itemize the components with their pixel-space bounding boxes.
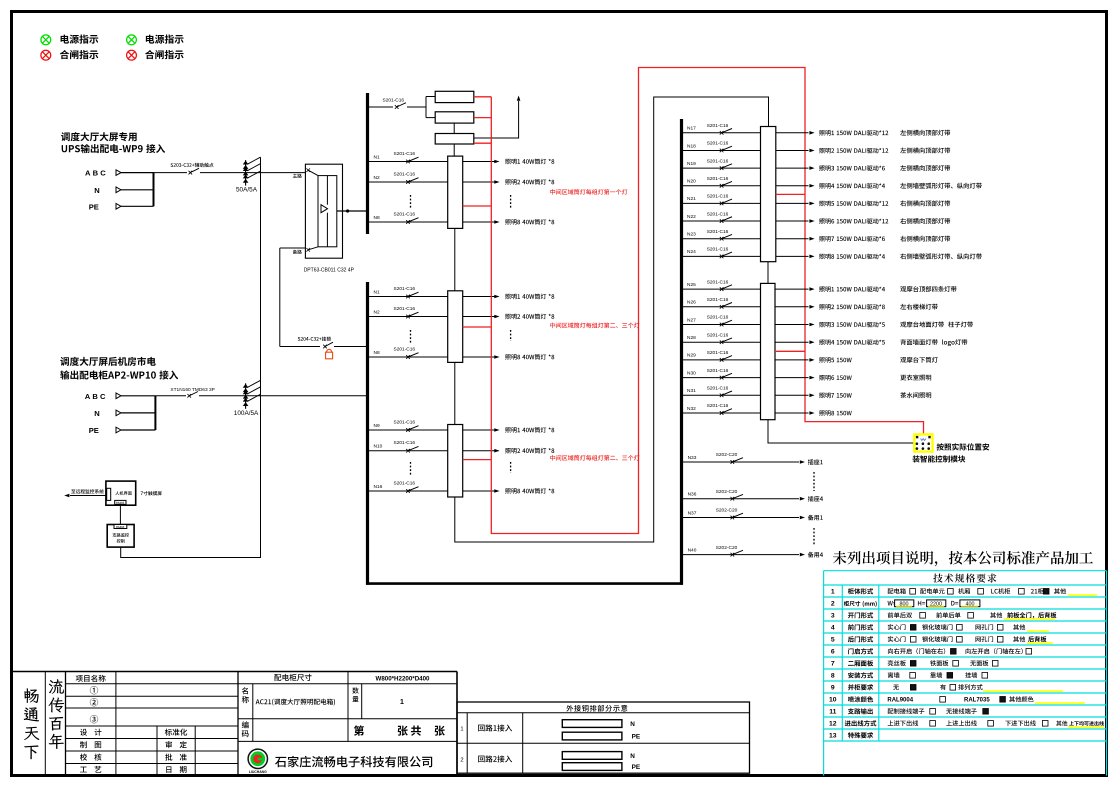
arrow and load label of N23 (809, 237, 814, 241)
arrow and load label of N27 (809, 323, 814, 327)
svg-text:N2: N2 (374, 310, 380, 316)
padlock symbol red (326, 349, 333, 359)
copper bar N row1 (562, 720, 622, 728)
dots group1 right (510, 195, 512, 208)
svg-text:S201-C16: S201-C16 (707, 141, 729, 147)
svg-text:N9: N9 (374, 423, 380, 429)
arrow and load label of N17 (809, 131, 814, 135)
ATS dual power switch DPT63-CB011 outline (305, 164, 342, 258)
wire terminal2 to terminal3 (454, 362, 456, 424)
branch circuit N19 wire (683, 167, 761, 169)
branch circuit N10 wire (369, 450, 463, 452)
branch breaker S201-C16 module feed (369, 106, 393, 108)
svg-text:S201-C16: S201-C16 (707, 368, 729, 374)
branch circuit N16 wire (369, 490, 463, 492)
svg-text:9: 9 (831, 685, 835, 692)
technical spec table title (933, 573, 996, 582)
branch circuit N2 wire (369, 181, 463, 183)
breaker S201-C16 of N28 (720, 340, 724, 344)
copper bar PE row1 (562, 732, 622, 740)
svg-text:S201-C16: S201-C16 (707, 403, 729, 409)
svg-text:N30: N30 (687, 370, 696, 376)
svg-text:100A/5A: 100A/5A (234, 410, 259, 417)
arrow and load label of N29 (809, 358, 814, 362)
arrow and load label of N16 (494, 489, 499, 493)
ATS inner frame (318, 176, 337, 247)
svg-text:S201-C16: S201-C16 (707, 123, 729, 129)
breaker S201-C16 of N17 (720, 131, 724, 135)
company name (275, 756, 432, 767)
breaker S201-C16 of N21 (720, 202, 724, 206)
svg-text:S202-C20: S202-C20 (716, 545, 738, 551)
wire module2 to module3 (453, 123, 455, 133)
legend label closing-indication 1 (60, 50, 98, 59)
svg-text:LIUCHANG: LIUCHANG (249, 770, 267, 774)
branch circuit N28 wire (683, 341, 761, 343)
arrow and load label of N9 (494, 428, 499, 432)
wire module3 to terminal block 1 (453, 144, 455, 156)
breaker S201-C16 of N2 (406, 180, 410, 184)
branch circuit N27 wire (683, 324, 761, 326)
remote monitoring label (71, 489, 103, 493)
svg-text:N19: N19 (687, 161, 696, 167)
svg-text:10: 10 (829, 697, 837, 704)
spec row3 content (888, 612, 912, 618)
svg-text:N1: N1 (374, 155, 380, 161)
svg-text:N23: N23 (687, 232, 696, 238)
arrow and load label of N19 (809, 166, 814, 170)
breaker S201-C16 of N8 (406, 355, 410, 359)
branch circuit N37 wire (683, 517, 799, 519)
svg-text:N29: N29 (687, 353, 696, 359)
ATS backup path label (293, 250, 302, 254)
svg-text:N37: N37 (688, 510, 697, 516)
spec row12 content (888, 720, 919, 726)
arrow and load label of N33 (800, 460, 805, 464)
busbar 1 ATS output (366, 93, 369, 234)
arrow and load label of N2 (494, 180, 499, 184)
wire feed2 PE (121, 429, 155, 431)
red stub right B control (775, 350, 805, 352)
branch circuit N20 wire (683, 185, 761, 187)
svg-text:2: 2 (831, 601, 835, 608)
breaker S201-C16 of N19 (720, 166, 724, 170)
svg-text:A B C: A B C (85, 169, 106, 178)
breaker S201-C16 of N2 (406, 315, 410, 319)
breaker XT1N160 TMD63 3P (187, 394, 191, 398)
svg-text:7: 7 (831, 661, 835, 668)
arrow and load label of N8 (494, 355, 499, 359)
svg-text:11: 11 (829, 709, 836, 716)
svg-text:S201-C16: S201-C16 (394, 420, 416, 426)
current transformer CT2 100A/5A (245, 383, 247, 409)
breaker S201-C16 of N20 (720, 184, 724, 188)
svg-text:XT1N160 TMD63 3P: XT1N160 TMD63 3P (170, 387, 214, 393)
ATS main contact (306, 168, 310, 172)
legend label power-indication 2 (146, 34, 184, 43)
breaker S201-C16 of N31 (720, 394, 724, 398)
svg-text:N31: N31 (687, 388, 696, 394)
svg-text:N2: N2 (374, 175, 380, 181)
arrow and load label of N40 (800, 553, 805, 557)
wire feed2 to breaker XT1N160 (155, 395, 186, 397)
wire breaker S203 to CT1 (200, 172, 306, 174)
HMI box human machine interface (106, 481, 136, 505)
branch circuit N40 wire (683, 554, 799, 556)
branch circuit N2 wire (369, 316, 463, 318)
svg-text:N16: N16 (374, 484, 383, 490)
wire feed1 to breaker S203 (154, 172, 188, 174)
breaker S203-C32 with aux contact (189, 171, 193, 175)
breaker S201-C16 of N9 (406, 428, 410, 432)
breaker S202-C20 of N37 (731, 516, 735, 520)
svg-text:S201-C16: S201-C16 (394, 440, 416, 446)
wire breaker to module connector (407, 106, 426, 108)
current transformer CT1 50A/5A (245, 160, 247, 186)
svg-text:S202-C20: S202-C20 (716, 452, 738, 458)
svg-text:4: 4 (831, 625, 835, 632)
svg-text:PE: PE (89, 202, 99, 211)
title block label project name (76, 675, 106, 682)
arrow and load label of N22 (809, 219, 814, 223)
branch circuit N17 wire (683, 132, 761, 134)
title block sheet number (354, 725, 364, 735)
branch circuit N24 wire (683, 255, 761, 257)
arrow and load label of N31 (809, 394, 814, 398)
svg-text:N20: N20 (687, 179, 696, 185)
branch circuit N30 wire (683, 377, 761, 379)
svg-text:PE: PE (632, 734, 641, 741)
wire HMI to branch monitor (119, 504, 121, 524)
breaker S202-C20 of N36 (731, 497, 735, 501)
HMI note 7 inch touchscreen (141, 491, 162, 495)
svg-text:S201-C16: S201-C16 (394, 172, 416, 178)
svg-text:S201-C16: S201-C16 (394, 306, 416, 312)
svg-text:S201-C16: S201-C16 (394, 347, 416, 353)
note text not-listed-items (833, 551, 1093, 566)
arrow and load label of N2 (494, 315, 499, 319)
svg-text:8: 8 (831, 673, 835, 680)
arrow and load label of N21 (809, 202, 814, 206)
branch circuit N21 wire (683, 202, 761, 204)
branch circuit N8 wire (369, 221, 463, 223)
arrow and load label of N8 (494, 220, 499, 224)
arrow and load label of N37 (800, 516, 805, 520)
svg-text:1: 1 (400, 699, 404, 706)
svg-text:N40: N40 (688, 547, 697, 553)
svg-text:N: N (94, 186, 99, 195)
legend label power-indication 1 (61, 34, 99, 43)
title block circled numbers (90, 686, 98, 694)
legend label closing-indication 2 (145, 50, 183, 59)
svg-text:N28: N28 (687, 335, 696, 341)
external copper bar table (457, 702, 750, 773)
branch circuit N1 wire (369, 296, 463, 298)
smart module annotation line2 (913, 455, 966, 462)
dots sockets group upper (813, 472, 815, 491)
svg-text:S201-C16: S201-C16 (707, 229, 729, 235)
wire module2 red stub (474, 117, 492, 119)
smart module annotation line1 (937, 443, 990, 450)
svg-text:PE: PE (89, 426, 99, 435)
breaker S201-C16 of N1 (406, 160, 410, 164)
indicator lamp legend red closing 1 (41, 50, 51, 60)
copper bar N row2 (562, 752, 622, 760)
branch circuit N18 wire (683, 149, 761, 151)
wire module1 red stub (474, 96, 492, 98)
svg-text:N: N (94, 409, 99, 418)
branch circuit N25 wire (683, 288, 761, 290)
wire branch monitor to UPS feed (121, 158, 261, 558)
svg-text:S201-C16: S201-C16 (707, 247, 729, 253)
red annotation group3 (550, 455, 639, 461)
arrow and load label of N32 (809, 411, 814, 415)
technical specification table cyan grid (824, 570, 1107, 572)
company logo (248, 749, 267, 768)
breaker S201-C16 of N16 (406, 489, 410, 493)
arrow and load label of N26 (809, 305, 814, 309)
svg-text:1: 1 (831, 589, 835, 596)
wire module3 output up arrow (474, 101, 519, 138)
svg-text:S201-C16: S201-C16 (707, 332, 729, 338)
svg-text:S202-C20: S202-C20 (716, 489, 738, 495)
red stub group3 control (463, 459, 492, 461)
title block grid (12, 671, 458, 673)
control chain wire terminal3 to right panel (455, 97, 769, 542)
svg-text:6: 6 (831, 649, 835, 656)
svg-text:N10: N10 (374, 444, 383, 450)
branch circuit N23 wire (683, 238, 761, 240)
svg-text:S201-C16: S201-C16 (707, 158, 729, 164)
arrow and load label of N36 (800, 497, 805, 501)
copper bar table title (566, 705, 627, 712)
red stub group2 control (463, 326, 492, 328)
breaker S202-C20 of N40 (731, 553, 735, 557)
wire to remote monitoring with arrow (70, 495, 107, 497)
wire feed1 collector vertical (153, 173, 155, 207)
svg-text:50A/5A: 50A/5A (236, 187, 258, 194)
power module rectangle 1 (435, 91, 474, 102)
breaker S204-C32 with padlock (323, 345, 327, 349)
wire feed1 PE (121, 205, 154, 207)
arrow and load label of N1 (494, 160, 499, 164)
svg-text:S201-C16: S201-C16 (707, 386, 729, 392)
svg-text:S201-C16: S201-C16 (383, 98, 405, 104)
svg-text:S201-C16: S201-C16 (394, 481, 416, 487)
wire feed2 N (121, 412, 155, 414)
indicator lamp legend green power 2 (127, 35, 137, 45)
breaker S201-C16 of N26 (720, 305, 724, 309)
title block cabinet size header (274, 674, 311, 681)
feed 1 description text UPS (61, 132, 137, 141)
title block name label (242, 687, 248, 694)
dots group1 left (410, 195, 412, 209)
busbar 3 right panel (680, 119, 683, 585)
calligraphy motto right column (49, 679, 64, 694)
dots sockets group lower (813, 528, 815, 545)
svg-text:S201-C16: S201-C16 (707, 176, 729, 182)
svg-text:12: 12 (829, 721, 837, 728)
junction dot ATS output (346, 209, 349, 212)
svg-text:S201-C16: S201-C16 (394, 151, 416, 157)
wire feed1 N (121, 189, 154, 191)
branch circuit N32 wire (683, 412, 761, 414)
calligraphy motto left column (24, 688, 39, 703)
branch circuit N31 wire (683, 394, 761, 396)
breaker S201-C16 of N27 (720, 323, 724, 327)
red annotation group1 (550, 189, 627, 195)
svg-text:2: 2 (460, 758, 463, 764)
branch circuit N29 wire (683, 359, 761, 361)
busbar 2 mains (366, 282, 369, 585)
arrow and load label of N18 (809, 149, 814, 153)
branch circuit N22 wire (683, 220, 761, 222)
arrow and load label of N20 (809, 184, 814, 188)
svg-text:S201-C16: S201-C16 (707, 211, 729, 217)
branch circuit N36 wire (683, 498, 799, 500)
svg-text:N26: N26 (687, 300, 696, 306)
spec row7 content (888, 660, 906, 666)
branch circuit N33 wire (683, 461, 799, 463)
spec row9 content (893, 685, 899, 690)
wire ATS backup from bus2 via S204 horizontal (280, 247, 306, 249)
arrow and load label of N10 (494, 449, 499, 453)
spec row6 content (888, 648, 945, 654)
breaker S201-C16 of N1 (406, 295, 410, 299)
terminal block right A (761, 127, 776, 262)
branch circuit N1 wire (369, 161, 463, 163)
ATS main path label (293, 174, 302, 178)
branch monitor control box (107, 525, 134, 548)
svg-text:N27: N27 (687, 317, 696, 323)
wire breaker to CT2 (199, 395, 367, 397)
breaker S201-C16 of N24 (720, 255, 724, 259)
breaker S201-C16 of N8 (406, 220, 410, 224)
ATS backup contact (306, 248, 310, 252)
wire feed2 collector vertical (154, 396, 156, 430)
svg-text:5: 5 (831, 637, 835, 644)
svg-text:N8: N8 (374, 215, 380, 221)
svg-text:RAL9004: RAL9004 (887, 698, 913, 704)
smart control module yellow highlighted box (914, 434, 932, 451)
wire bus2 to bus3 bottom link (366, 582, 683, 585)
arrow and load label of N30 (809, 376, 814, 380)
svg-text:S202-C20: S202-C20 (716, 508, 738, 514)
svg-text:N24: N24 (687, 249, 696, 255)
branch circuit N9 wire (369, 429, 463, 431)
arrow and load label of N1 (494, 295, 499, 299)
feed 2 description text mains (60, 357, 155, 366)
red annotation group2 (550, 323, 639, 329)
wire terminal A to terminal B (767, 262, 769, 284)
ATS selector triangle (321, 205, 328, 213)
svg-text:1: 1 (460, 727, 463, 733)
copper bar PE row2 (562, 763, 622, 771)
svg-text:N32: N32 (687, 406, 696, 412)
svg-text:A B C: A B C (85, 392, 106, 401)
breaker S201-C16 of N18 (720, 149, 724, 153)
power module rectangle 2 (435, 112, 474, 123)
wire ATS backup vertical (279, 248, 281, 347)
power module rectangle 3 (435, 134, 474, 145)
red stub group1 control (463, 205, 492, 207)
breaker S201-C16 of N30 (720, 376, 724, 380)
indicator lamp legend green power 1 (41, 35, 51, 45)
control chain terminal B to smart module (768, 420, 914, 443)
dots group2 right (510, 330, 512, 341)
svg-text:N8: N8 (374, 350, 380, 356)
indicator lamp legend red closing 2 (127, 50, 137, 60)
title block code label (242, 721, 249, 728)
breaker S201-C16 of N10 (406, 449, 410, 453)
breaker S202-C20 of N33 (731, 460, 735, 464)
title block quantity label (352, 687, 358, 693)
svg-text:N25: N25 (687, 282, 696, 288)
terminal block group 1 (448, 156, 463, 228)
title block designer rows (80, 729, 101, 736)
wire terminal1 to terminal2 (454, 228, 456, 290)
branch circuit N26 wire (683, 306, 761, 308)
svg-text:S201-C16: S201-C16 (707, 194, 729, 200)
svg-text:N21: N21 (687, 196, 696, 202)
svg-text:N: N (630, 721, 635, 728)
breaker S201-C16 of N32 (720, 411, 724, 415)
svg-text:N33: N33 (688, 455, 697, 461)
svg-text:N: N (630, 753, 635, 760)
wire feed1 phase (121, 172, 154, 174)
svg-text:W800*H2200*D400: W800*H2200*D400 (375, 675, 430, 682)
breaker S201-C16 of N25 (720, 287, 724, 291)
dots group2 left (410, 330, 412, 344)
svg-text:S201-C16: S201-C16 (707, 350, 729, 356)
svg-text:S201-C16: S201-C16 (707, 315, 729, 321)
svg-text:13: 13 (829, 733, 837, 740)
spec row4 content (888, 624, 906, 630)
terminal block group 2 (448, 291, 463, 363)
svg-text:N1: N1 (374, 290, 380, 296)
red stub right A control (776, 193, 805, 195)
red control wire main loop (491, 68, 923, 534)
branch circuit N8 wire (369, 356, 463, 358)
svg-text:RAL7035: RAL7035 (964, 698, 990, 704)
wire feed2 phase (121, 395, 155, 397)
svg-text:S201-C16: S201-C16 (394, 286, 416, 292)
breaker S201-C16 of N22 (720, 219, 724, 223)
wire module3 red stub (474, 142, 492, 144)
breaker S201-C16 of N23 (720, 237, 724, 241)
svg-text:S201-C16: S201-C16 (707, 297, 729, 303)
arrow and load label of N28 (809, 340, 814, 344)
title block cabinet name AC21 (256, 699, 335, 706)
svg-text:N22: N22 (687, 214, 696, 220)
svg-text:N18: N18 (687, 143, 696, 149)
svg-text:S201-C16: S201-C16 (707, 279, 729, 285)
svg-text:N17: N17 (687, 126, 696, 132)
svg-text:3: 3 (831, 613, 835, 620)
terminal block right B (761, 283, 776, 419)
svg-text:N36: N36 (688, 492, 697, 498)
arrow and load label of N25 (809, 287, 814, 291)
arrow and load label of N24 (809, 255, 814, 259)
spec row1 content (888, 588, 906, 594)
svg-text:S201-C16: S201-C16 (394, 212, 416, 218)
dots group3 right (510, 462, 512, 473)
wire S204 branch to bus2 (280, 346, 320, 348)
spec row5 content (888, 636, 906, 642)
spec row2 content cabinet size (888, 601, 897, 606)
svg-text:DPT63-CB011 C32 4P: DPT63-CB011 C32 4P (304, 267, 355, 273)
spec row11 content (888, 708, 925, 714)
